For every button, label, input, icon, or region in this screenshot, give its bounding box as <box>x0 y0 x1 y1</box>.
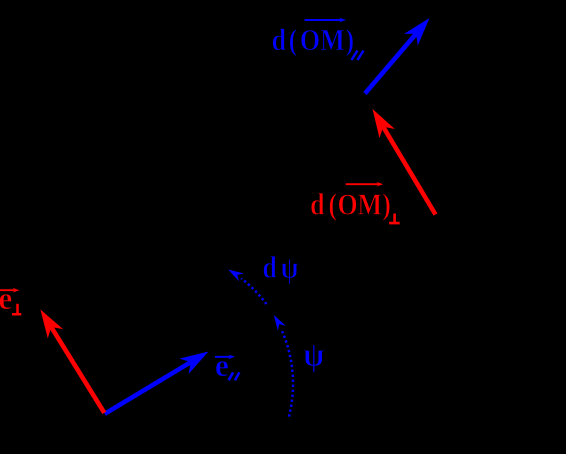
svg-text:e: e <box>215 348 229 383</box>
svg-text:ψ: ψ <box>303 335 324 373</box>
svg-text:dψ: dψ <box>263 251 299 285</box>
svg-text:e: e <box>0 281 12 316</box>
svg-text:d(OM): d(OM) <box>310 189 391 222</box>
svg-text:d(OM): d(OM) <box>272 24 355 57</box>
